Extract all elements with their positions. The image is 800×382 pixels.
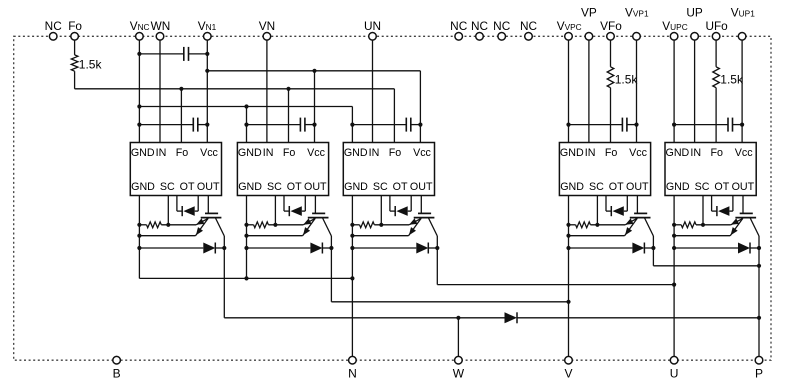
pin NC 2 bbox=[450, 19, 468, 40]
wire U bus bbox=[437, 283, 676, 287]
diode D5a (OT clamp) bbox=[712, 196, 733, 217]
svg-text:1.5k: 1.5k bbox=[615, 73, 639, 87]
wire WN to U1 IN bbox=[159, 40, 161, 142]
svg-text:Fo: Fo bbox=[710, 147, 723, 159]
svg-text:NC: NC bbox=[450, 19, 468, 33]
svg-text:VN1: VN1 bbox=[198, 19, 217, 33]
resistor R5g (emitter sense) bbox=[672, 222, 731, 228]
resistor R2 1.5k (VFo) bbox=[607, 40, 614, 142]
svg-text:Fo: Fo bbox=[176, 147, 189, 159]
svg-text:GND: GND bbox=[560, 147, 584, 159]
pin VP bbox=[581, 6, 597, 41]
svg-text:OUT: OUT bbox=[304, 181, 327, 193]
wire U3 emitter sense 2 bbox=[350, 234, 408, 238]
gate driver IC U1 bbox=[130, 143, 221, 196]
wire U2 GND top bbox=[244, 107, 248, 143]
capacitor C2 bbox=[139, 118, 207, 132]
wire Fo bus bbox=[75, 87, 395, 91]
capacitor C4 bbox=[352, 118, 420, 132]
pin NC 5 bbox=[520, 19, 538, 40]
pin UFo bbox=[705, 19, 728, 40]
pin UN bbox=[364, 19, 381, 40]
wire U2 Vcc top bbox=[312, 71, 316, 143]
svg-text:VUP1: VUP1 bbox=[731, 6, 755, 20]
svg-text:VVP1: VVP1 bbox=[625, 6, 649, 20]
svg-text:IN: IN bbox=[369, 147, 380, 159]
wire VNC bus bbox=[139, 104, 352, 108]
svg-text:UFo: UFo bbox=[705, 19, 728, 33]
pin B bbox=[113, 356, 121, 380]
diode D1 (freewheel) bbox=[137, 243, 226, 254]
resistor R3 1.5k (UFo) bbox=[713, 40, 720, 142]
svg-text:GND: GND bbox=[131, 147, 155, 159]
svg-text:NC: NC bbox=[520, 19, 538, 33]
diode D2a (OT clamp) bbox=[284, 196, 305, 217]
pin P bbox=[755, 356, 763, 380]
pin VNC bbox=[130, 19, 150, 40]
svg-text:1.5k: 1.5k bbox=[720, 73, 744, 87]
pin W bbox=[453, 356, 465, 380]
pin VVP1 bbox=[625, 6, 649, 41]
svg-text:Vcc: Vcc bbox=[200, 147, 218, 159]
svg-text:GND: GND bbox=[560, 181, 584, 193]
resistor R1 1.5k (Fo) bbox=[71, 40, 78, 89]
wire U2 SC bbox=[274, 196, 276, 225]
wire VP to U4 IN bbox=[588, 40, 590, 142]
wire U3 GND to N bbox=[351, 196, 353, 357]
svg-text:VN: VN bbox=[259, 19, 275, 33]
pin VUPC bbox=[662, 19, 687, 40]
wire Q1 collector down bbox=[223, 236, 225, 318]
wire U2 Fo bbox=[288, 89, 290, 143]
wire UP to U5 IN bbox=[694, 40, 696, 142]
svg-text:NC: NC bbox=[471, 19, 489, 33]
label R2 1.5k bbox=[615, 73, 639, 87]
gate driver IC U5 bbox=[665, 143, 756, 196]
pin UP bbox=[686, 6, 703, 41]
svg-text:OT: OT bbox=[287, 181, 302, 193]
svg-text:IN: IN bbox=[690, 147, 701, 159]
svg-text:Vcc: Vcc bbox=[413, 147, 431, 159]
svg-text:B: B bbox=[113, 367, 121, 381]
wire U1 emitter sense 2 bbox=[137, 234, 195, 238]
svg-text:OT: OT bbox=[714, 181, 729, 193]
svg-text:UN: UN bbox=[364, 19, 381, 33]
gate driver IC U3 bbox=[343, 143, 434, 196]
wire VN to U2 IN bbox=[266, 40, 268, 142]
svg-text:GND: GND bbox=[344, 181, 368, 193]
pin VFo bbox=[600, 19, 622, 40]
wire VUPC to U5 GND bbox=[672, 40, 676, 142]
svg-text:OT: OT bbox=[180, 181, 195, 193]
pin VUP1 bbox=[731, 6, 755, 41]
svg-text:N: N bbox=[348, 367, 357, 381]
svg-text:NC: NC bbox=[45, 19, 63, 33]
capacitor C1 bbox=[139, 47, 209, 61]
pin NC 4 bbox=[493, 19, 511, 40]
svg-text:SC: SC bbox=[373, 181, 388, 193]
wire VVPC to U4 GND bbox=[566, 40, 570, 142]
wire Q2 collector down bbox=[330, 236, 332, 302]
wire VVP1 to U4 Vcc bbox=[634, 40, 638, 142]
svg-text:OUT: OUT bbox=[732, 181, 755, 193]
svg-text:VVPC: VVPC bbox=[557, 19, 582, 33]
svg-text:OT: OT bbox=[393, 181, 408, 193]
pin Fo bbox=[68, 19, 82, 40]
resistor R2g (emitter sense) bbox=[244, 222, 303, 228]
wire U3 GND top bbox=[350, 107, 354, 143]
svg-text:WN: WN bbox=[151, 19, 171, 33]
diode D2 (freewheel) bbox=[244, 243, 333, 254]
wire U3 SC bbox=[380, 196, 382, 225]
svg-text:W: W bbox=[453, 367, 465, 381]
pin NC bbox=[45, 19, 63, 40]
IGBT Q3 bbox=[409, 196, 438, 237]
wire U2 GND down bbox=[246, 196, 248, 279]
pin N bbox=[348, 356, 357, 380]
capacitor C6 bbox=[674, 118, 742, 132]
svg-text:Vcc: Vcc bbox=[735, 147, 753, 159]
diode D6 (W to P) bbox=[505, 312, 518, 323]
gate driver IC U4 bbox=[559, 143, 650, 196]
gate driver IC U2 bbox=[237, 143, 328, 196]
svg-text:V: V bbox=[564, 367, 572, 381]
wire U4 emitter sense 2 bbox=[566, 234, 624, 238]
diode D3a (OT clamp) bbox=[390, 196, 411, 217]
wire N bus bbox=[139, 276, 354, 280]
svg-text:VP: VP bbox=[581, 6, 597, 20]
wire U3 Fo bbox=[393, 89, 395, 143]
pin U bbox=[670, 356, 679, 380]
diode D3 (freewheel) bbox=[350, 243, 439, 254]
IGBT Q5 bbox=[730, 196, 759, 237]
svg-text:GND: GND bbox=[666, 181, 690, 193]
wire Q4 collector down bbox=[652, 236, 654, 266]
svg-text:NC: NC bbox=[493, 19, 511, 33]
svg-text:OUT: OUT bbox=[197, 181, 220, 193]
svg-text:GND: GND bbox=[344, 147, 368, 159]
wire U3 Vcc top bbox=[418, 71, 422, 143]
diode D4a (OT clamp) bbox=[606, 196, 627, 217]
pin VN1 bbox=[198, 19, 217, 40]
svg-text:Vcc: Vcc bbox=[307, 147, 325, 159]
svg-text:IN: IN bbox=[585, 147, 596, 159]
svg-text:OUT: OUT bbox=[626, 181, 649, 193]
svg-text:GND: GND bbox=[238, 181, 262, 193]
wire U1 SC bbox=[167, 196, 169, 225]
svg-text:Vcc: Vcc bbox=[629, 147, 647, 159]
svg-text:SC: SC bbox=[589, 181, 604, 193]
wire UN to U3 IN bbox=[372, 40, 374, 142]
svg-text:VUPC: VUPC bbox=[662, 19, 687, 33]
IGBT Q4 bbox=[625, 196, 654, 237]
svg-text:SC: SC bbox=[695, 181, 710, 193]
resistor R1g (emitter sense) bbox=[137, 222, 196, 228]
wire VN1 vertical bbox=[205, 40, 209, 142]
svg-text:P: P bbox=[755, 367, 763, 381]
wire U1 Fo bbox=[180, 89, 182, 143]
svg-text:SC: SC bbox=[160, 181, 175, 193]
wire U5 emitter sense 2 bbox=[672, 234, 730, 238]
pin NC 3 bbox=[471, 19, 489, 40]
wire Q5 collector to P pin bbox=[758, 236, 760, 356]
capacitor C5 bbox=[569, 118, 637, 132]
pin V bbox=[564, 356, 572, 380]
wire U5 SC bbox=[702, 196, 704, 225]
wire U4 GND to V pin bbox=[568, 196, 570, 357]
wire U4 SC bbox=[596, 196, 598, 225]
wire W pin bbox=[457, 318, 459, 357]
svg-text:Fo: Fo bbox=[605, 147, 618, 159]
wire W bus to P bbox=[517, 316, 761, 320]
svg-text:1.5k: 1.5k bbox=[79, 58, 103, 72]
svg-text:UP: UP bbox=[686, 6, 703, 20]
svg-text:OT: OT bbox=[609, 181, 624, 193]
IGBT Q2 bbox=[303, 196, 332, 237]
svg-text:VFo: VFo bbox=[600, 19, 622, 33]
wire VN1 bus bbox=[207, 69, 420, 73]
label R1 1.5k bbox=[79, 58, 103, 72]
diode D4 (freewheel) bbox=[566, 243, 655, 254]
svg-text:GND: GND bbox=[131, 181, 155, 193]
svg-text:VNC: VNC bbox=[130, 19, 150, 33]
diode D1a (OT clamp) bbox=[177, 196, 198, 217]
label R3 1.5k bbox=[720, 73, 744, 87]
wire VUP1 to U5 Vcc bbox=[740, 40, 744, 142]
pin VN bbox=[259, 19, 275, 40]
diode D5 (freewheel) bbox=[672, 243, 761, 254]
wire P bus bbox=[653, 264, 761, 268]
svg-text:OUT: OUT bbox=[410, 181, 433, 193]
pin VVPC bbox=[557, 19, 582, 40]
wire W bus bbox=[224, 316, 504, 320]
svg-text:U: U bbox=[670, 367, 679, 381]
svg-text:Fo: Fo bbox=[68, 19, 82, 33]
svg-text:Fo: Fo bbox=[389, 147, 402, 159]
svg-text:GND: GND bbox=[666, 147, 690, 159]
wire U5 GND to U pin bbox=[673, 196, 675, 357]
wire Q3 collector down bbox=[436, 236, 438, 285]
wire V bus bbox=[331, 300, 570, 304]
resistor R4g (emitter sense) bbox=[566, 222, 625, 228]
resistor R3g (emitter sense) bbox=[350, 222, 409, 228]
capacitor C3 bbox=[247, 118, 315, 132]
pin WN bbox=[151, 19, 171, 40]
svg-text:Fo: Fo bbox=[283, 147, 296, 159]
svg-text:GND: GND bbox=[238, 147, 262, 159]
svg-text:IN: IN bbox=[156, 147, 167, 159]
wire VNC vertical bbox=[137, 40, 141, 142]
wire U2 emitter sense 2 bbox=[244, 234, 302, 238]
IGBT Q1 bbox=[196, 196, 225, 237]
wire U1 GND down bbox=[138, 196, 140, 279]
svg-text:SC: SC bbox=[267, 181, 282, 193]
svg-text:IN: IN bbox=[263, 147, 274, 159]
